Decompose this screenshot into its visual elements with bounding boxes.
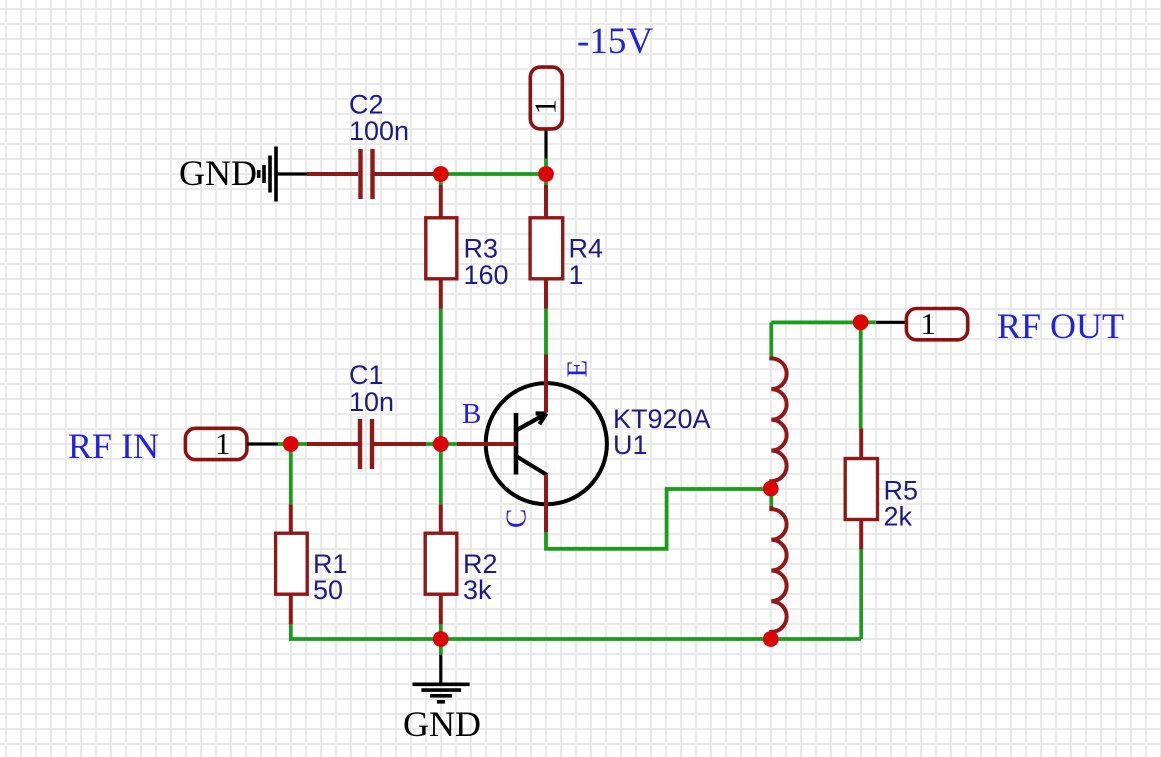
svg-text:RF OUT: RF OUT (997, 306, 1124, 346)
svg-text:E: E (562, 360, 594, 378)
svg-text:GND: GND (403, 704, 481, 744)
junction G (bottom tap node) (763, 631, 779, 647)
svg-text:2k: 2k (884, 502, 913, 532)
wire (collector to tap) (546, 489, 771, 549)
ground GND (bottom) (403, 645, 481, 744)
wire (junction to C1) (291, 442, 307, 446)
svg-text:1: 1 (569, 260, 584, 290)
wire (bottom rail) (291, 624, 861, 639)
svg-text:-15V: -15V (577, 21, 653, 62)
svg-text:U1: U1 (613, 430, 648, 460)
junction A (C2/R3 node) (433, 166, 449, 182)
svg-text:C: C (501, 509, 533, 528)
inductor lower winding (771, 506, 786, 640)
junction E (GND node) (433, 631, 449, 647)
junction F (tap node) (763, 481, 779, 497)
port 1 (-15V) (528, 67, 563, 129)
resistor R5 (845, 329, 877, 639)
junction D (base node) (433, 436, 449, 452)
svg-text:3k: 3k (463, 575, 492, 605)
wire (RF OUT pin) (861, 320, 906, 324)
junction B (-15V node) (538, 166, 554, 182)
wire (inductor top feed) (769, 322, 773, 356)
svg-text:R3: R3 (464, 234, 499, 264)
resistor R3 (426, 174, 457, 309)
svg-text:10n: 10n (349, 387, 394, 417)
capacitor C2 (307, 149, 435, 199)
svg-text:RF IN: RF IN (68, 426, 159, 466)
ground GND (top left) (179, 147, 276, 202)
port 1 (RF OUT) (906, 306, 967, 341)
resistor R1 (276, 451, 308, 624)
wire (GND to C2) (278, 172, 307, 175)
svg-text:C1: C1 (349, 360, 384, 390)
svg-text:1: 1 (215, 426, 231, 461)
wire (port -15V pin) (544, 129, 548, 174)
svg-text:R4: R4 (569, 234, 604, 264)
resistor R4 (530, 174, 563, 309)
svg-text:C2: C2 (349, 90, 384, 120)
svg-text:GND: GND (179, 153, 257, 193)
svg-text:160: 160 (464, 260, 509, 290)
svg-text:100n: 100n (349, 116, 409, 146)
wire (R3 to base node) (439, 309, 443, 444)
junction C (RF IN node) (283, 436, 299, 452)
wire (C1 to base junction) (426, 442, 441, 446)
wire (tap stub) (769, 495, 773, 506)
transistor U1 KT920A (457, 355, 607, 533)
wire (RF IN pin) (247, 442, 291, 445)
wire (C2 junction to -15V junction) (435, 172, 546, 176)
junction H (RF OUT node) (853, 314, 869, 330)
wire (R4 to emitter) (544, 309, 548, 355)
resistor R2 (425, 451, 457, 624)
svg-text:1: 1 (921, 306, 937, 341)
wire (top right rail) (771, 320, 861, 324)
svg-text:B: B (462, 398, 481, 430)
inductor upper winding (771, 357, 786, 489)
capacitor C1 (307, 419, 426, 469)
svg-text:50: 50 (313, 575, 343, 605)
svg-text:1: 1 (528, 99, 563, 115)
port 1 (RF IN) (185, 426, 247, 461)
wire (base stub) (441, 442, 457, 446)
